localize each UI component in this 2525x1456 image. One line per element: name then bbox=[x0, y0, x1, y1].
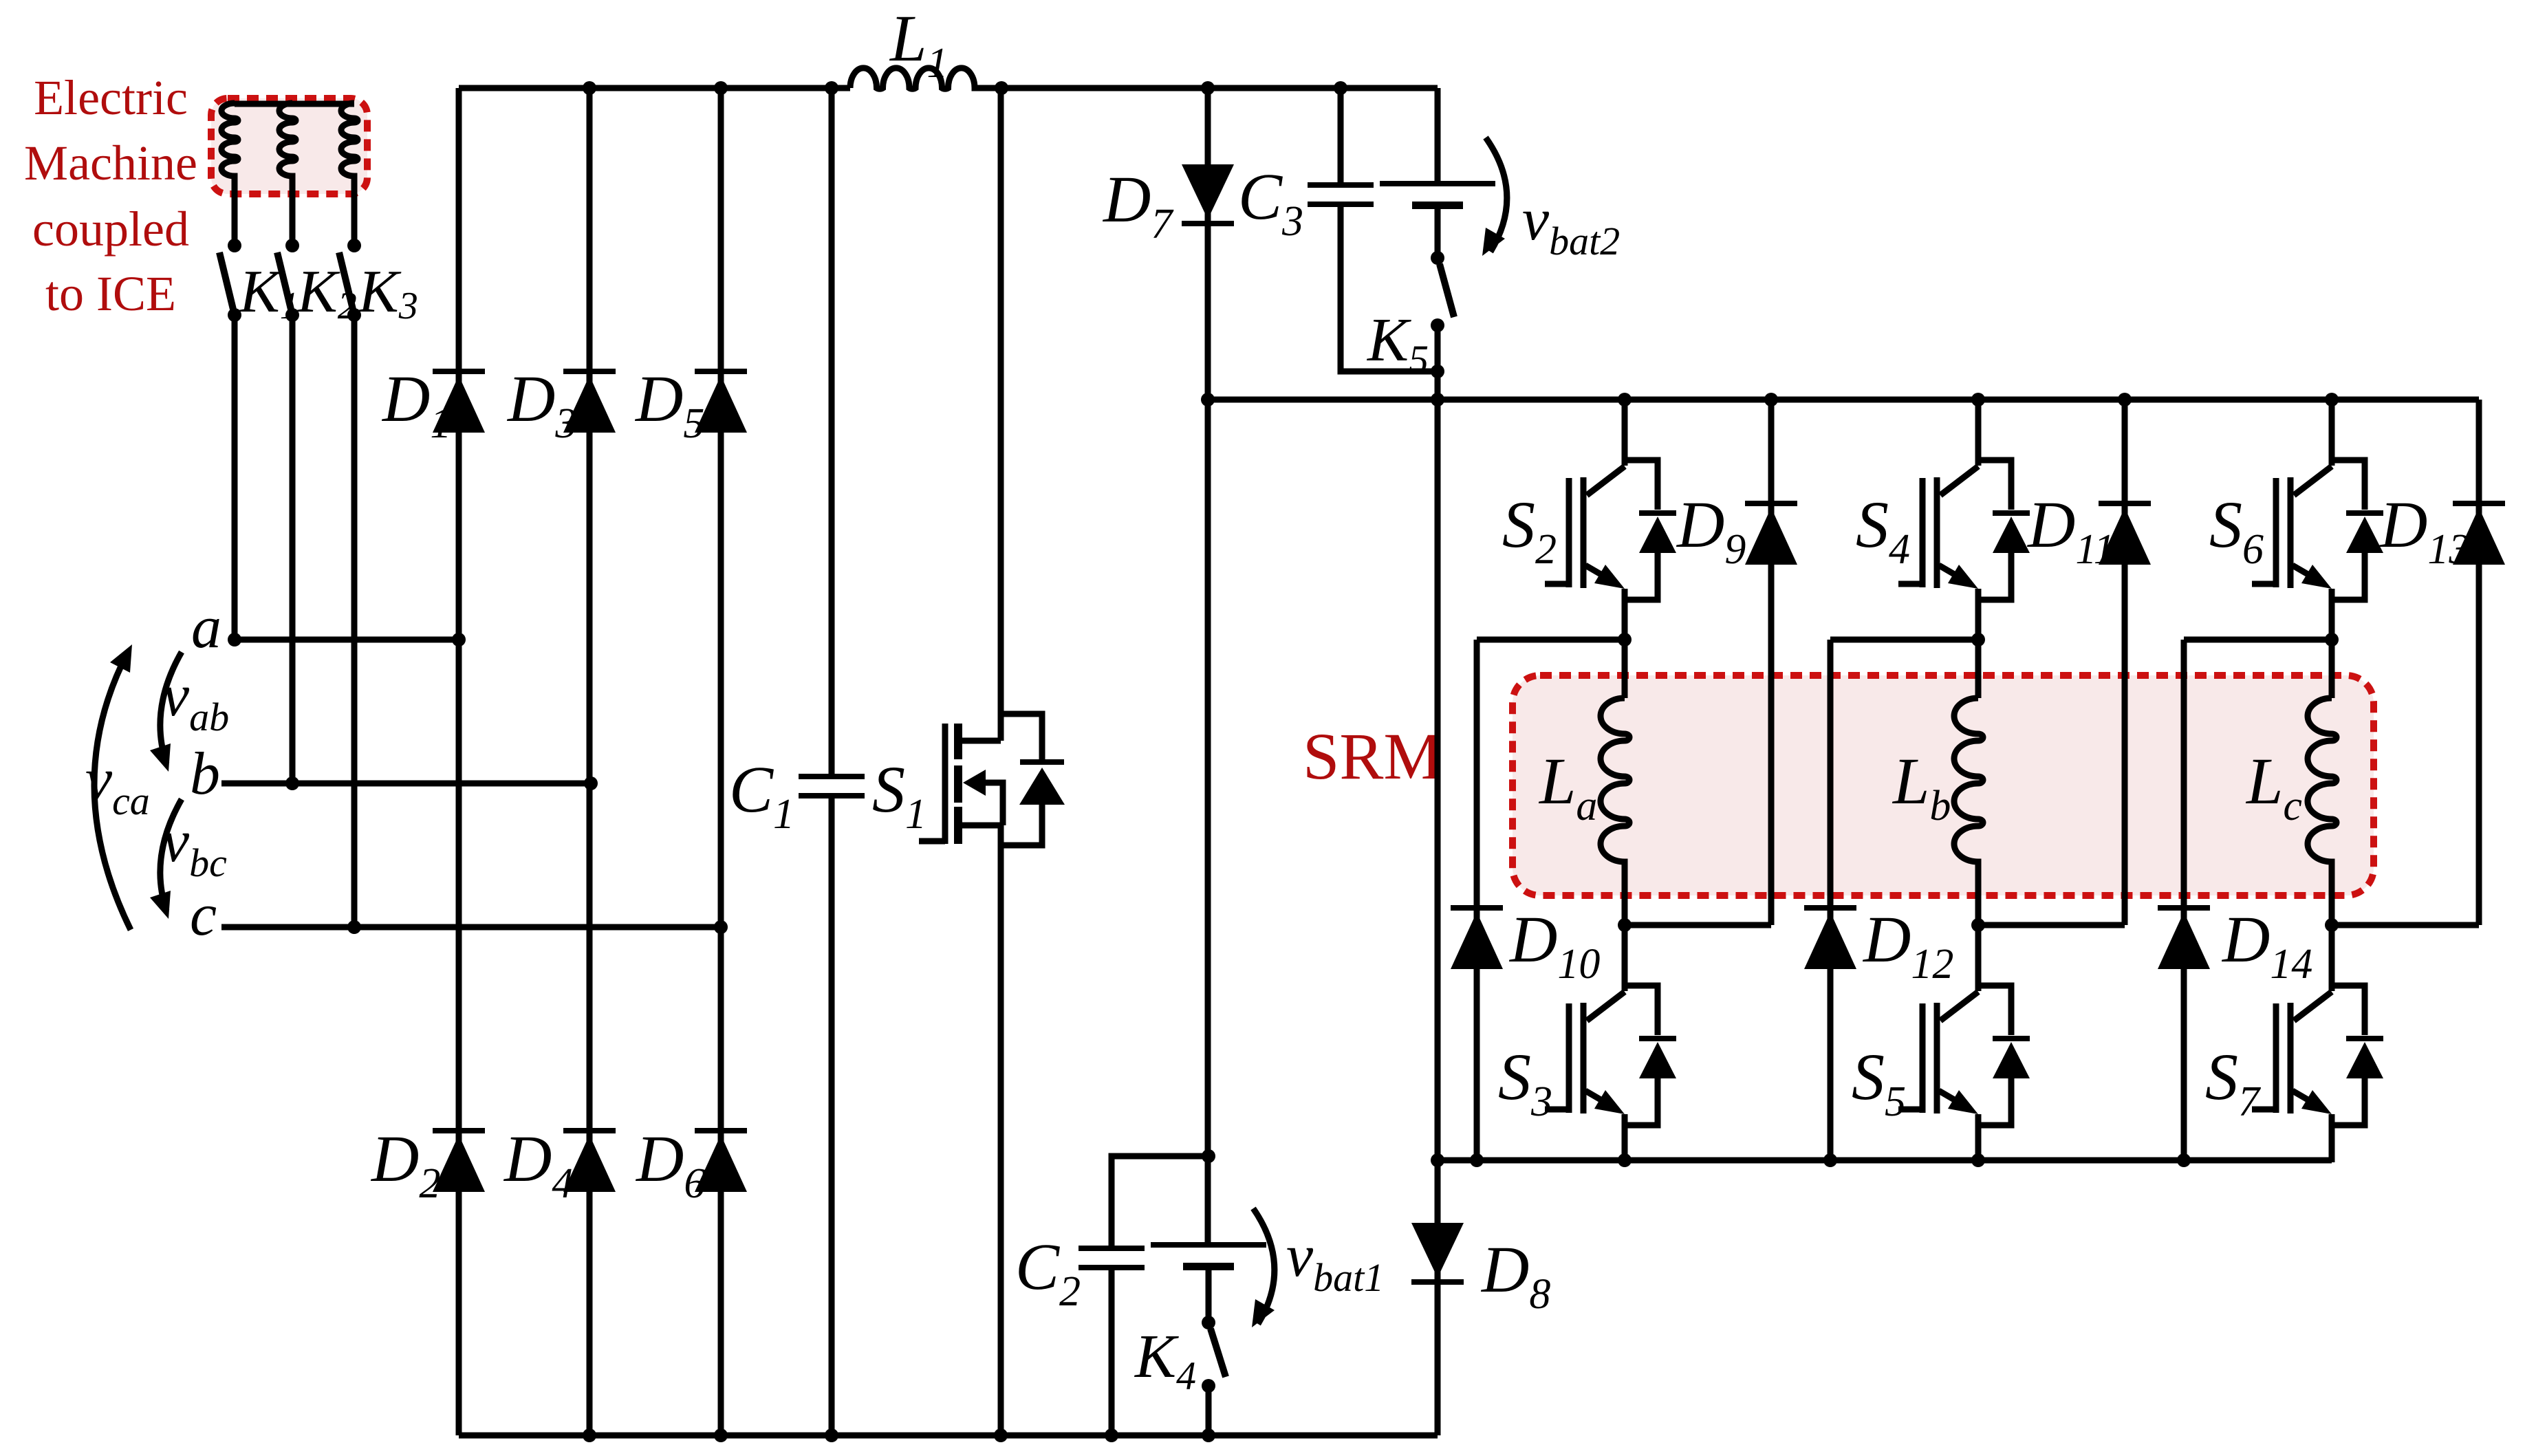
wire S1 body-diode top jog bbox=[999, 714, 1042, 759]
wire D11 column bbox=[2122, 400, 2128, 925]
diode D6 bbox=[695, 1128, 747, 1133]
battery v_bat2 bbox=[1380, 181, 1495, 186]
wire D14 column bbox=[2181, 640, 2187, 1160]
diode D9 bbox=[1745, 501, 1797, 506]
diode D5 bbox=[695, 369, 747, 374]
junction SRM rail x=2575 bbox=[1764, 393, 1778, 406]
capacitor C1 bbox=[799, 774, 865, 779]
switch K5 bbox=[1431, 251, 1444, 265]
wire battery2 to K5 bbox=[1435, 209, 1441, 258]
switch K1 bbox=[228, 239, 241, 252]
wire phase c bbox=[221, 924, 721, 931]
wire S1 drain stub bbox=[962, 738, 1001, 744]
svg-text:SRM: SRM bbox=[1303, 719, 1442, 793]
junction SRM rail x=2876 bbox=[1971, 393, 1985, 406]
wire S1 gate lead bbox=[919, 838, 945, 845]
wire top bus right of L1 bbox=[981, 85, 1438, 91]
wire D13 column bbox=[2476, 400, 2482, 925]
machine winding 2 bbox=[279, 103, 296, 180]
node phase b bottom bbox=[1971, 918, 1985, 932]
junction top bus x=1756 bbox=[1201, 81, 1215, 95]
wire S1 body-diode bottom jog bbox=[999, 802, 1042, 845]
node phase a bottom bbox=[1618, 918, 1632, 932]
arrow v_ab bbox=[160, 652, 182, 763]
diode D4 bbox=[563, 1128, 616, 1133]
node c-D5 leg bbox=[714, 920, 728, 934]
wire La bottom bbox=[1622, 869, 1628, 925]
wire SRM bottom bus bbox=[1438, 1158, 2332, 1164]
junction top bus x=1209 bbox=[825, 81, 838, 95]
wire battery1 to K4 bbox=[1206, 1270, 1212, 1323]
junction SRM bus x=2876 bbox=[1971, 1153, 1985, 1167]
transistor S7 (IGBT) bbox=[2329, 925, 2335, 991]
S1 bulk arrow bbox=[986, 783, 1003, 825]
junction SRM bus x=2147 bbox=[1470, 1153, 1484, 1167]
wire D7-battery1 column upper bbox=[1205, 88, 1211, 1242]
wire SRM top rail bbox=[1208, 397, 2479, 403]
switch K3 bbox=[347, 239, 361, 252]
diode D10 bbox=[1451, 905, 1503, 911]
wire node c to D13 bbox=[2332, 922, 2479, 928]
wire node b to D12 bbox=[1830, 637, 1978, 643]
diode D12 bbox=[1804, 905, 1856, 911]
SRM dashed box bbox=[1513, 675, 2374, 895]
machine winding 3 bbox=[341, 103, 358, 180]
diode D13 bbox=[2453, 501, 2505, 506]
wire battery2 column to bottom bus bbox=[1435, 371, 1441, 1435]
node phase a top bbox=[1618, 633, 1632, 646]
node phase b top bbox=[1971, 633, 1985, 646]
wire machine coil common top bbox=[235, 101, 354, 107]
node phase c bottom bbox=[2325, 918, 2339, 932]
arrow v_bc bbox=[160, 799, 182, 911]
wire node b to D11 bbox=[1978, 922, 2125, 928]
svg-text:b: b bbox=[190, 741, 220, 807]
wire C1 top bbox=[829, 88, 835, 774]
wire S1 source stub bbox=[962, 823, 1001, 829]
arrow v_ca bbox=[94, 652, 131, 930]
transistor S3 (IGBT) bbox=[1622, 925, 1628, 991]
junction bottom bus x=1209 bbox=[825, 1428, 838, 1442]
junction SRM bus x=3175 bbox=[2177, 1153, 2191, 1167]
junction C2 tap bbox=[1202, 1149, 1215, 1163]
wire top bus left of L1 bbox=[459, 85, 850, 91]
diode D8 bbox=[1411, 1279, 1464, 1285]
wire D9 column bbox=[1768, 400, 1775, 925]
junction bottom bus x=1048 bbox=[714, 1428, 728, 1442]
transistor S2 (IGBT) bbox=[1622, 400, 1628, 466]
junction SRM rail x=2362 bbox=[1618, 393, 1632, 406]
wire D1/D2 leg bbox=[456, 88, 462, 1435]
node a-K1 bbox=[228, 633, 241, 646]
svg-text:coupled: coupled bbox=[32, 202, 189, 257]
junction SRM bus x=2362 bbox=[1618, 1153, 1632, 1167]
arrow v_bat2 bbox=[1486, 138, 1507, 252]
wire D5/D6 leg bbox=[718, 88, 724, 1435]
junction K5 bypass bbox=[1431, 365, 1444, 378]
wire top bus corner to battery2 bbox=[1435, 88, 1441, 181]
wire Lc bottom bbox=[2329, 869, 2335, 925]
junction bottom bus x=1455 bbox=[994, 1428, 1008, 1442]
wire K1 to phase bbox=[232, 315, 238, 640]
diode D3 bbox=[563, 369, 616, 374]
junction top bus x=1949 bbox=[1334, 81, 1347, 95]
svg-text:to ICE: to ICE bbox=[45, 266, 176, 321]
wire phase a bbox=[231, 637, 459, 643]
wire winding3 to K3 bbox=[351, 180, 358, 246]
wire D12 column bbox=[1828, 640, 1834, 1160]
node b-K2 bbox=[285, 776, 299, 790]
wire K2 to phase bbox=[290, 315, 296, 783]
capacitor C3 bbox=[1308, 182, 1374, 188]
wire C2 tap bbox=[1112, 1156, 1209, 1246]
wire C3 top bbox=[1338, 88, 1344, 182]
svg-text:a: a bbox=[191, 594, 221, 661]
wire winding1 to K1 bbox=[232, 180, 238, 246]
diode D11 bbox=[2099, 501, 2151, 506]
wire D3/D4 leg bbox=[587, 88, 593, 1435]
wire node a to D10 bbox=[1477, 637, 1625, 643]
inductor L1 bbox=[850, 68, 981, 89]
wire S2 emitter to La bbox=[1622, 637, 1628, 698]
svg-text:Machine: Machine bbox=[24, 135, 197, 191]
junction SRM rail x=3390 bbox=[2325, 393, 2339, 406]
transistor S5 (IGBT) bbox=[1975, 925, 1982, 991]
wire Lb bottom bbox=[1975, 869, 1982, 925]
inductor Lc bbox=[2308, 698, 2337, 869]
wire S1 source column bbox=[998, 825, 1004, 1435]
arrow v_bat1 bbox=[1253, 1208, 1275, 1324]
wire node a to D9 bbox=[1625, 922, 1771, 928]
wire bottom bus bbox=[459, 1433, 1438, 1439]
S1 channel bar bbox=[954, 724, 962, 844]
junction bottom bus x=1757 bbox=[1202, 1428, 1215, 1442]
wire C1 bottom bbox=[829, 798, 835, 1435]
junction bottom bus x=857 bbox=[583, 1428, 596, 1442]
electric machine dashed box bbox=[211, 98, 367, 194]
node c-K3 bbox=[347, 920, 361, 934]
switch K2 bbox=[285, 239, 299, 252]
wire K5 to junction bbox=[1435, 325, 1441, 371]
junction SRM rail x=1756 bbox=[1201, 393, 1215, 406]
junction SRM rail x=3089 bbox=[2118, 393, 2132, 406]
wire C3 bottom to K5 bypass bbox=[1341, 207, 1438, 371]
junction SRM bus x=2090 bbox=[1431, 1153, 1444, 1167]
wire phase b bbox=[221, 781, 591, 787]
body diode of S1 bbox=[1020, 759, 1064, 765]
wire S6 emitter to Lc bbox=[2329, 637, 2335, 698]
svg-text:Electric: Electric bbox=[34, 70, 188, 125]
junction SRM rail x=2090 bbox=[1431, 393, 1444, 406]
junction top bus x=1048 bbox=[714, 81, 728, 95]
transistor S6 (IGBT) bbox=[2329, 400, 2335, 466]
switch K4 bbox=[1202, 1316, 1215, 1329]
node b-D3 leg bbox=[584, 776, 598, 790]
diode D14 bbox=[2158, 905, 2210, 911]
wire D10 column bbox=[1474, 640, 1480, 1160]
wire node c to D14 bbox=[2184, 637, 2332, 643]
wire K4 to bottom bus bbox=[1206, 1386, 1212, 1435]
node a-D1 leg bbox=[452, 633, 466, 646]
wire S4 emitter to Lb bbox=[1975, 637, 1982, 698]
junction top bus x=857 bbox=[583, 81, 596, 95]
wire S1 drain column bbox=[998, 88, 1004, 741]
wire K3 to phase bbox=[351, 315, 358, 927]
S1 gate bar bbox=[942, 724, 949, 844]
junction bottom bus x=1616 bbox=[1105, 1428, 1118, 1442]
diode D7 bbox=[1182, 221, 1234, 226]
junction top bus x=1456 bbox=[995, 81, 1008, 95]
diode D2 bbox=[433, 1128, 485, 1133]
svg-text:c: c bbox=[190, 882, 217, 948]
transistor S4 (IGBT) bbox=[1975, 400, 1982, 466]
battery v_bat1 bbox=[1151, 1242, 1266, 1248]
wire winding2 to K2 bbox=[290, 180, 296, 246]
junction SRM bus x=2661 bbox=[1823, 1153, 1837, 1167]
inductor Lb bbox=[1954, 698, 1983, 869]
node phase c top bbox=[2325, 633, 2339, 646]
diode D1 bbox=[433, 369, 485, 374]
machine winding 1 bbox=[221, 103, 238, 180]
inductor La bbox=[1601, 698, 1629, 869]
wire C2 bottom bbox=[1109, 1270, 1115, 1435]
capacitor C2 bbox=[1079, 1246, 1145, 1251]
